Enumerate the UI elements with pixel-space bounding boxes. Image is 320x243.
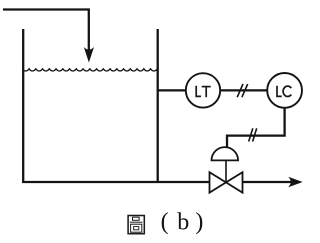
svg-text:(: (: [161, 209, 169, 235]
svg-text:b: b: [177, 210, 189, 236]
svg-text:): ): [195, 209, 203, 235]
